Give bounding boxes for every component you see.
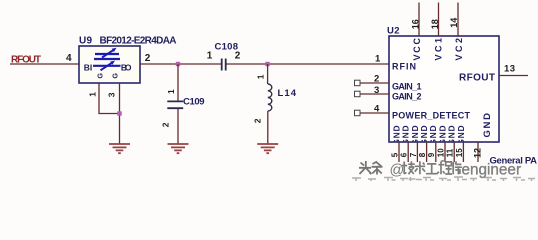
svg-text:2: 2	[374, 74, 379, 85]
fake glyph 程	[437, 161, 452, 175]
svg-text:11: 11	[446, 148, 455, 157]
svg-text:4: 4	[66, 53, 72, 64]
watermark row 2 (clipped at bottom edge)	[352, 177, 535, 181]
svg-text:7: 7	[409, 152, 418, 157]
svg-text:8: 8	[418, 152, 427, 157]
svg-text:POWER_DETECT: POWER_DETECT	[392, 110, 471, 120]
U9 pin 3 stub (bottom right)	[119, 83, 121, 144]
wire GAIN_2 stub	[360, 93, 389, 95]
junction node C109	[176, 62, 180, 66]
U9 pin 1 stub (bottom left)	[99, 83, 120, 114]
svg-text:10: 10	[436, 148, 445, 157]
svg-text:engineer: engineer	[462, 161, 522, 178]
terminal square POWER_DETECT	[355, 110, 361, 116]
fake glyph 师	[453, 161, 462, 174]
U9 symbol line 1	[95, 53, 119, 55]
U2 top pin stub VCC	[418, 3, 420, 37]
svg-text:3: 3	[374, 85, 379, 96]
U2 top pin stub VC2	[457, 3, 459, 37]
U2 top pin stub VC1	[438, 3, 440, 37]
fake glyph 术	[415, 161, 425, 174]
wire U9 pin2 to C108 pin1	[140, 63, 221, 65]
svg-text:9: 9	[427, 152, 436, 157]
svg-text:RFOUT: RFOUT	[459, 72, 495, 83]
svg-text:14: 14	[449, 18, 459, 28]
svg-text:1: 1	[256, 74, 266, 79]
U9 symbol line 2	[94, 58, 120, 60]
inductor L14 coil	[268, 84, 272, 111]
svg-text:RFIN: RFIN	[392, 62, 416, 72]
U9 symbol line 3	[93, 65, 121, 67]
U2 bottom pin stubs	[399, 142, 478, 162]
svg-text:BO: BO	[121, 62, 132, 72]
fake glyph 技	[402, 161, 415, 174]
svg-text:5: 5	[390, 152, 399, 157]
junction node L14	[265, 62, 269, 66]
svg-text:18: 18	[430, 19, 440, 29]
fake glyph 头	[359, 161, 372, 174]
wire GAIN_1 stub	[360, 82, 389, 84]
pin name GND small (rotated) x8	[391, 125, 465, 146]
svg-text:BF2012-E2R4DAA: BF2012-E2R4DAA	[100, 35, 177, 46]
svg-text:1: 1	[375, 54, 381, 65]
svg-text:4: 4	[374, 104, 380, 115]
svg-text:2: 2	[145, 53, 151, 64]
svg-text:6: 6	[400, 152, 409, 157]
watermark 技术工程师	[402, 161, 462, 175]
ground (C109)	[168, 144, 189, 153]
svg-text:BI: BI	[84, 62, 93, 72]
ground (L14)	[257, 144, 278, 153]
ground (U9)	[109, 144, 130, 153]
svg-text:3: 3	[106, 92, 116, 97]
svg-text:VCC: VCC	[412, 38, 422, 61]
capacitor C108 plates	[222, 59, 226, 71]
svg-text:1: 1	[207, 51, 213, 62]
filter U9 body	[79, 46, 140, 83]
svg-text:1: 1	[88, 92, 98, 97]
svg-text:VC1: VC1	[433, 38, 443, 61]
svg-text:2: 2	[252, 118, 262, 123]
wire L14 to ground	[267, 111, 269, 144]
svg-text:L14: L14	[278, 88, 297, 99]
watermark row 1: 头条	[359, 161, 383, 175]
U9 symbol arrow 2	[101, 63, 112, 70]
terminal square GAIN_1	[355, 80, 361, 86]
U9 symbol arrow 1	[102, 50, 113, 57]
svg-text:12: 12	[473, 148, 483, 158]
svg-text:GND: GND	[482, 113, 493, 138]
fake glyph 条	[372, 162, 383, 175]
svg-text:15: 15	[455, 148, 464, 157]
svg-text:1: 1	[166, 89, 176, 94]
wire RFOUT to U9 pin 4	[10, 63, 79, 65]
svg-text:U2: U2	[387, 26, 400, 37]
svg-text:U9: U9	[79, 35, 92, 46]
wire C109 to ground	[177, 109, 179, 144]
svg-text:G: G	[97, 73, 104, 79]
wire junction to C109	[177, 64, 179, 101]
IC U2 body	[389, 36, 499, 142]
svg-text:2: 2	[235, 51, 241, 62]
wire C108 pin2 to U2 RFIN	[227, 63, 390, 65]
svg-text:C109: C109	[183, 96, 205, 107]
svg-text:GAIN_2: GAIN_2	[392, 92, 422, 102]
terminal square GAIN_2	[355, 91, 361, 97]
capacitor C109 plates	[167, 101, 183, 108]
wire RFOUT stub (U2 pin 13)	[499, 75, 528, 77]
svg-text:G: G	[112, 73, 119, 79]
junction U9 ground node	[117, 111, 121, 115]
svg-text:2: 2	[160, 122, 170, 127]
svg-text:VC2: VC2	[454, 38, 464, 61]
svg-text:13: 13	[504, 64, 515, 75]
fake glyph 工	[426, 164, 437, 174]
svg-text:GAIN_1: GAIN_1	[392, 82, 422, 92]
wire junction to L14	[267, 64, 269, 84]
svg-text:16: 16	[411, 19, 421, 29]
wire POWER_DETECT stub	[360, 112, 389, 114]
